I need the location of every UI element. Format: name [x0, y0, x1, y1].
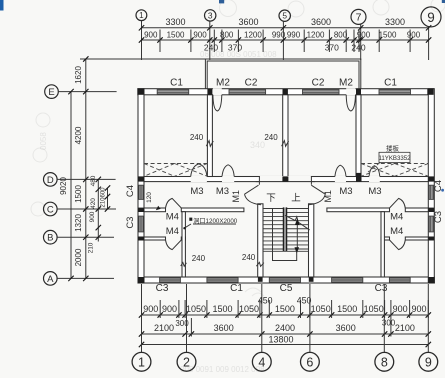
svg-text:1200: 1200	[307, 30, 325, 39]
door M3 room1	[191, 164, 207, 177]
svg-text:450: 450	[258, 295, 273, 305]
svg-text:1200: 1200	[244, 30, 262, 39]
staircase centre rail	[283, 207, 287, 251]
svg-text:C1: C1	[384, 77, 397, 88]
blue dot east wall	[441, 189, 444, 192]
door M1 left leaf and swing	[245, 185, 259, 194]
svg-text:1050: 1050	[364, 304, 384, 314]
svg-text:M1: M1	[231, 190, 241, 203]
svg-text:900: 900	[357, 30, 371, 39]
svg-text:M3: M3	[190, 186, 203, 197]
grid bubble 5 top	[279, 10, 290, 21]
window C3 east	[429, 216, 433, 232]
svg-text:上: 上	[291, 193, 301, 204]
svg-text:M4: M4	[166, 226, 179, 237]
break mark wall grid3	[206, 141, 213, 147]
svg-text:8: 8	[381, 355, 388, 369]
svg-text:D: D	[47, 175, 54, 186]
grid bubble 4 bottom	[252, 352, 271, 371]
blue artifact top-left	[0, 0, 4, 11]
svg-text:3300: 3300	[385, 17, 405, 27]
door gap M2 right in top wall	[346, 88, 355, 95]
svg-text:9: 9	[425, 355, 432, 369]
svg-text:210: 210	[88, 242, 95, 253]
stair east wall	[309, 204, 314, 277]
svg-text:900: 900	[162, 304, 177, 314]
column block west B	[138, 237, 144, 241]
svg-text:C3: C3	[125, 217, 136, 229]
svg-text:900: 900	[144, 30, 158, 39]
svg-text:900: 900	[407, 30, 421, 39]
hall opening in corridor north wall	[260, 176, 311, 181]
svg-text:2: 2	[183, 355, 190, 369]
svg-text:C3: C3	[433, 211, 444, 223]
grid bubble 9 top	[421, 7, 441, 27]
window C1 bottom-left	[207, 278, 238, 282]
column block NE corner	[427, 89, 433, 95]
svg-text:3600: 3600	[238, 17, 258, 27]
column block stair east base	[309, 277, 314, 282]
grid bubble 3 top	[205, 10, 216, 21]
svg-text:600: 600	[101, 187, 107, 198]
svg-text:900: 900	[411, 304, 426, 314]
svg-text:800: 800	[220, 30, 234, 39]
door M4 upper-left	[166, 198, 182, 208]
window C3 bottom-left	[160, 278, 181, 282]
svg-text:990: 990	[272, 30, 286, 39]
door M2 right	[346, 95, 355, 111]
column block SE corner	[428, 277, 434, 283]
exterior east wall	[428, 89, 434, 283]
door M4 lower-left	[166, 240, 182, 250]
column block grid7 top	[356, 89, 361, 95]
svg-text:下: 下	[266, 193, 276, 204]
svg-text:1500: 1500	[167, 30, 185, 39]
svg-text:210: 210	[101, 197, 107, 208]
svg-text:3300: 3300	[165, 17, 185, 27]
grid bubble A	[44, 272, 58, 286]
grid bubble 1 bottom	[132, 352, 151, 371]
column block west D	[138, 176, 144, 181]
svg-text:4200: 4200	[74, 126, 83, 144]
opening label 1200x2000	[189, 218, 192, 221]
exterior top wall	[138, 89, 434, 95]
canopy outline above entrance	[205, 59, 360, 89]
svg-text:M1: M1	[323, 190, 333, 203]
stair up arrow	[296, 221, 298, 249]
svg-text:1500: 1500	[337, 304, 357, 314]
window C1 bottom-right	[332, 278, 363, 282]
svg-text:2100: 2100	[154, 323, 174, 333]
column block west C	[138, 208, 144, 212]
break mark wall grid5	[282, 141, 289, 147]
svg-text:120: 120	[146, 192, 153, 203]
svg-text:420: 420	[90, 198, 97, 209]
grid bubble 7 top	[351, 9, 366, 24]
svg-text:2400: 2400	[275, 323, 295, 333]
svg-text:800: 800	[334, 30, 348, 39]
overall 9020 dimension line	[70, 92, 72, 279]
svg-text:C1: C1	[230, 283, 243, 294]
interior wall grid 7	[356, 95, 361, 177]
svg-text:M3: M3	[368, 186, 381, 197]
svg-text:1620: 1620	[74, 66, 83, 84]
grid bubble 6 bottom	[301, 352, 320, 371]
svg-text:M3: M3	[339, 186, 352, 197]
svg-text:M4: M4	[166, 212, 179, 223]
svg-text:300: 300	[175, 319, 189, 328]
svg-text:1050: 1050	[311, 304, 331, 314]
svg-text:C1: C1	[170, 77, 183, 88]
column block grid5 top	[283, 89, 288, 95]
svg-text:C: C	[47, 204, 54, 215]
door M4 upper-right	[390, 198, 406, 208]
door M3 room4	[369, 166, 380, 177]
column block stair west base	[258, 277, 263, 282]
svg-text:M2: M2	[339, 77, 353, 88]
svg-text:1500: 1500	[212, 304, 232, 314]
window C1 top-right	[379, 90, 411, 95]
svg-text:900: 900	[143, 304, 158, 314]
grid bubble 1 top	[136, 10, 147, 21]
svg-text:450: 450	[297, 295, 312, 305]
door M3 room2	[222, 165, 234, 177]
window C4 west	[139, 185, 143, 199]
column block grid7 D pier	[356, 173, 362, 182]
svg-text:4: 4	[258, 355, 265, 369]
svg-text:6: 6	[306, 355, 313, 369]
svg-text:M3: M3	[216, 186, 229, 197]
grid bubble 2 bottom	[177, 352, 196, 371]
svg-text:370: 370	[228, 43, 242, 53]
column block SW corner	[138, 277, 144, 283]
svg-text:1050: 1050	[239, 304, 259, 314]
staircase treads	[263, 208, 309, 210]
staircase break line	[285, 215, 310, 230]
svg-text:13800: 13800	[268, 334, 293, 344]
top dimension line 3300/3600 row	[142, 27, 429, 29]
stair landing edge	[263, 250, 309, 252]
svg-text:搂板: 搂板	[386, 144, 400, 153]
svg-text:1050: 1050	[186, 304, 206, 314]
window C3 west	[139, 216, 143, 232]
window C4 east	[429, 185, 433, 199]
column block NW corner	[138, 89, 144, 95]
dashed canopy outline left	[144, 164, 207, 177]
corridor north wall (grid D)	[144, 177, 428, 182]
wall grid B	[144, 237, 166, 240]
svg-text:1500: 1500	[74, 185, 83, 203]
svg-text:3: 3	[208, 10, 213, 20]
ghost bleed-through artifacts	[31, 0, 445, 296]
blue artifact top-right	[442, 0, 445, 3]
svg-text:480: 480	[90, 175, 97, 186]
svg-text:240: 240	[190, 133, 204, 142]
exterior bottom wall	[138, 277, 434, 283]
bottom grid bubbles	[141, 284, 143, 352]
svg-text:11YKB3352: 11YKB3352	[378, 155, 411, 162]
column block east D	[428, 176, 434, 181]
svg-text:M2: M2	[216, 77, 230, 88]
svg-text:C5: C5	[280, 283, 293, 294]
svg-text:M4: M4	[390, 212, 403, 223]
svg-text:3600: 3600	[336, 323, 356, 333]
partition wall left 240	[182, 212, 185, 277]
svg-text:2000: 2000	[74, 248, 83, 266]
grid bubble B	[44, 230, 58, 244]
grid bubble 9 bottom	[419, 352, 438, 371]
grid bubble D	[44, 173, 58, 187]
svg-text:900: 900	[393, 304, 408, 314]
svg-text:7: 7	[356, 12, 362, 24]
svg-text:2100: 2100	[395, 323, 415, 333]
window C5 bottom-centre	[269, 278, 300, 282]
svg-text:C2: C2	[245, 77, 258, 88]
svg-text:C3: C3	[375, 283, 388, 294]
door gap M2 left in top wall	[213, 88, 222, 95]
svg-text:5: 5	[282, 11, 287, 21]
dashed canopy outline right	[361, 163, 428, 177]
svg-text:C3: C3	[156, 283, 169, 294]
window C2 top-left	[229, 90, 266, 95]
svg-text:M4: M4	[390, 226, 403, 237]
door M3 room3	[335, 165, 346, 176]
svg-text:1: 1	[139, 11, 144, 20]
left inner mini chain	[107, 188, 109, 209]
svg-text:3600: 3600	[214, 323, 234, 333]
svg-text:240: 240	[351, 43, 365, 53]
svg-text:900: 900	[193, 30, 207, 39]
svg-text:340: 340	[250, 140, 265, 150]
stair landing boundary	[273, 251, 297, 260]
svg-text:240: 240	[264, 133, 278, 142]
svg-text:1: 1	[138, 355, 145, 369]
svg-text:E: E	[48, 87, 54, 98]
break mark partition wall left	[181, 263, 187, 267]
stair down arrow	[272, 209, 274, 252]
svg-text:990: 990	[287, 30, 301, 39]
column block east B	[428, 237, 434, 241]
left segment dimension line	[85, 59, 87, 278]
svg-text:1500: 1500	[379, 30, 397, 39]
svg-text:C2: C2	[312, 77, 325, 88]
blue artifact top-centre	[219, 0, 224, 3]
svg-text:9020: 9020	[59, 177, 68, 195]
door M4 lower-right	[390, 240, 406, 250]
partition wall right 240	[381, 212, 384, 277]
svg-text:9: 9	[427, 10, 435, 25]
svg-text:B: B	[47, 233, 53, 244]
break mark stair west wall	[256, 262, 264, 266]
svg-text:1500: 1500	[275, 304, 295, 314]
exterior west wall	[138, 89, 144, 283]
grid bubble E	[45, 85, 59, 99]
left mini chain line	[97, 179, 99, 241]
window C2 top-right	[303, 90, 340, 95]
door M2 left (double swing)	[213, 95, 222, 111]
svg-text:3600: 3600	[311, 17, 331, 27]
canopy front extension line for 1620 dim	[80, 58, 205, 60]
svg-text:1320: 1320	[74, 214, 83, 232]
column block east C	[428, 208, 434, 212]
grid bubble C	[44, 202, 58, 216]
top dimension line detail row	[142, 39, 429, 41]
svg-text:370: 370	[325, 43, 339, 53]
column block grid3 top	[207, 89, 212, 95]
corridor south wall (grid C)	[144, 208, 166, 212]
door gaps M3 in corridor north wall	[191, 176, 207, 182]
svg-text:900: 900	[89, 211, 96, 222]
interior wall grid 3	[207, 95, 212, 177]
grid bubble 8 bottom	[375, 352, 394, 371]
svg-text:C4: C4	[125, 185, 136, 197]
interior wall grid 5	[283, 95, 288, 177]
svg-text:240: 240	[192, 254, 206, 263]
window C3 bottom-right	[389, 278, 410, 282]
stair west wall	[258, 204, 263, 277]
svg-text:0058: 0058	[39, 132, 48, 150]
bottom dimension lines	[142, 314, 429, 316]
top grid extension lines	[141, 21, 143, 60]
window C1 top-left	[157, 90, 189, 95]
svg-text:A: A	[47, 274, 54, 285]
column block grid5 D	[282, 176, 288, 181]
svg-text:240: 240	[242, 253, 256, 262]
svg-text:240: 240	[204, 43, 218, 53]
door M1 right leaf and swing	[311, 185, 325, 194]
